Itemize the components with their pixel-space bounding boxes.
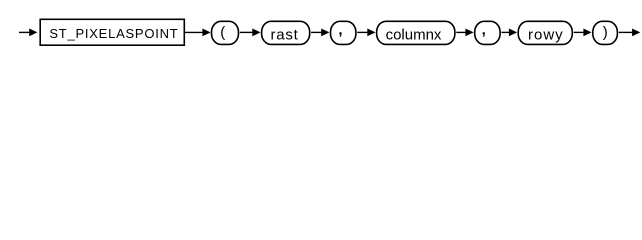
wire 4: [357, 29, 375, 37]
terminal (: [212, 21, 239, 44]
terminal ): [593, 21, 618, 44]
wire 3: [311, 29, 329, 37]
svg-text:,: ,: [482, 22, 486, 39]
terminal rowy: [518, 21, 572, 44]
wire 6: [502, 29, 518, 37]
box ST_PIXELASPOINT: [40, 19, 184, 45]
svg-text:columnx: columnx: [386, 26, 442, 43]
wire 7: [574, 29, 592, 37]
svg-text:,: ,: [338, 22, 342, 39]
wire 2: [240, 29, 261, 37]
svg-text:rowy: rowy: [528, 26, 564, 43]
wire start: [19, 29, 37, 37]
wire 5: [456, 29, 473, 37]
wire end: [619, 29, 641, 37]
wire 1: [185, 29, 211, 37]
svg-text:(: (: [220, 24, 225, 41]
svg-text:): ): [603, 24, 608, 41]
terminal rast: [262, 21, 310, 44]
terminal comma 2: [475, 21, 500, 44]
terminal comma 1: [331, 21, 356, 44]
terminal columnx: [377, 21, 455, 44]
svg-text:ST_PIXELASPOINT: ST_PIXELASPOINT: [49, 26, 178, 41]
svg-text:rast: rast: [270, 26, 298, 43]
